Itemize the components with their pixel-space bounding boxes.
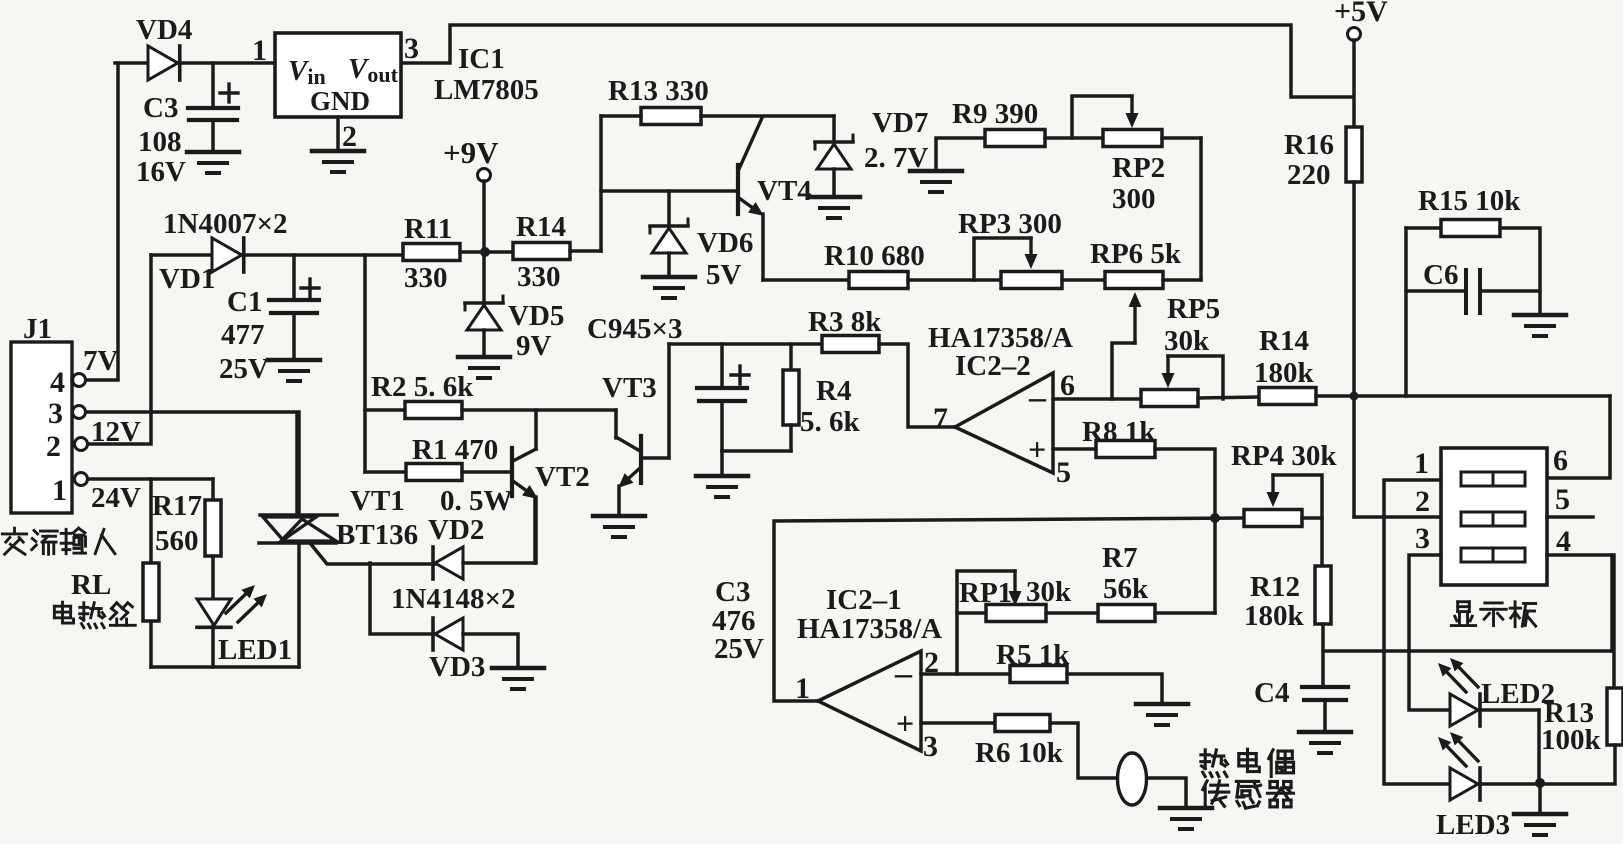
svg-text:477: 477: [221, 319, 265, 351]
svg-text:12V: 12V: [91, 416, 141, 448]
svg-text:30k: 30k: [1164, 325, 1210, 357]
svg-text:5. 6k: 5. 6k: [800, 406, 861, 438]
svg-text:–: –: [894, 655, 913, 692]
svg-text:IC2–2: IC2–2: [955, 350, 1031, 382]
svg-text:RP2: RP2: [1112, 152, 1165, 184]
svg-text:16V: 16V: [136, 156, 186, 188]
svg-text:R14: R14: [516, 211, 566, 243]
svg-text:R5 1k: R5 1k: [996, 639, 1070, 671]
svg-text:R9 390: R9 390: [952, 98, 1038, 130]
svg-text:LM7805: LM7805: [434, 74, 539, 106]
svg-text:1: 1: [795, 672, 810, 705]
svg-text:RL: RL: [71, 569, 111, 601]
svg-text:180k: 180k: [1254, 357, 1315, 389]
svg-text:R15 10k: R15 10k: [1418, 185, 1521, 217]
svg-text:3: 3: [923, 730, 938, 763]
svg-text:+: +: [1028, 431, 1046, 467]
svg-text:VD2: VD2: [428, 514, 484, 546]
svg-text:1: 1: [252, 34, 267, 67]
svg-text:560: 560: [155, 525, 199, 557]
svg-text:RP6 5k: RP6 5k: [1090, 238, 1182, 270]
svg-text:7V: 7V: [83, 345, 119, 377]
svg-text:24V: 24V: [91, 482, 141, 514]
svg-text:1N4007×2: 1N4007×2: [163, 208, 287, 240]
svg-text:LED1: LED1: [218, 634, 292, 666]
svg-text:–: –: [1028, 379, 1047, 416]
svg-text:C4: C4: [1254, 677, 1289, 709]
svg-text:2. 7V: 2. 7V: [864, 142, 929, 174]
svg-text:VT4: VT4: [757, 175, 812, 207]
svg-text:C3: C3: [143, 92, 178, 124]
svg-text:25V: 25V: [219, 353, 269, 385]
svg-text:R11: R11: [404, 213, 452, 245]
svg-text:RP3 300: RP3 300: [958, 208, 1062, 240]
svg-text:R7: R7: [1102, 542, 1137, 574]
svg-text:VT1: VT1: [350, 485, 405, 517]
svg-text:VD5: VD5: [508, 300, 564, 332]
svg-text:5: 5: [1056, 456, 1071, 489]
svg-text:108: 108: [138, 126, 182, 158]
svg-text:GND: GND: [310, 86, 370, 116]
svg-text:R1 470: R1 470: [412, 434, 498, 466]
svg-text:1N4148×2: 1N4148×2: [391, 583, 515, 615]
svg-text:R12: R12: [1250, 571, 1300, 603]
svg-text:56k: 56k: [1103, 573, 1149, 605]
svg-text:HA17358/A: HA17358/A: [797, 613, 942, 645]
svg-text:R13 330: R13 330: [608, 75, 709, 107]
svg-text:C3: C3: [715, 576, 750, 608]
svg-text:25V: 25V: [714, 633, 764, 665]
svg-text:VD6: VD6: [697, 227, 753, 259]
svg-text:1: 1: [1414, 447, 1429, 480]
svg-text:4: 4: [1556, 525, 1571, 558]
svg-text:IC1: IC1: [458, 43, 505, 75]
svg-text:300: 300: [1112, 183, 1156, 215]
svg-text:C1: C1: [227, 286, 262, 318]
svg-text:R3 8k: R3 8k: [808, 306, 882, 338]
svg-text:0. 5W: 0. 5W: [440, 485, 513, 517]
svg-text:+5V: +5V: [1334, 0, 1388, 28]
svg-text:C945×3: C945×3: [587, 313, 682, 345]
svg-text:RP4 30k: RP4 30k: [1231, 440, 1337, 472]
svg-text:2: 2: [1415, 485, 1430, 518]
svg-text:R4: R4: [816, 375, 851, 407]
svg-text:3: 3: [404, 32, 419, 65]
svg-text:6: 6: [1060, 369, 1075, 402]
svg-text:VT2: VT2: [535, 461, 590, 493]
svg-text:2: 2: [342, 120, 357, 153]
svg-text:9V: 9V: [516, 330, 552, 362]
svg-text:330: 330: [404, 262, 448, 294]
svg-text:3: 3: [48, 397, 63, 430]
svg-text:LED3: LED3: [1436, 809, 1510, 841]
svg-text:RP5: RP5: [1167, 293, 1220, 325]
svg-text:C6: C6: [1423, 259, 1458, 291]
svg-text:+: +: [896, 705, 914, 741]
svg-text:R14: R14: [1259, 325, 1309, 357]
svg-text:R17: R17: [152, 490, 202, 522]
svg-text:RP1: RP1: [959, 577, 1012, 609]
svg-text:7: 7: [933, 402, 948, 435]
svg-text:2: 2: [46, 430, 61, 463]
svg-text:R8 1k: R8 1k: [1082, 416, 1156, 448]
svg-text:220: 220: [1287, 159, 1331, 191]
svg-text:5V: 5V: [706, 259, 742, 291]
svg-text:30k: 30k: [1026, 576, 1072, 608]
svg-text:R10 680: R10 680: [824, 240, 925, 272]
svg-text:VT3: VT3: [602, 372, 657, 404]
svg-text:IC2–1: IC2–1: [826, 584, 902, 616]
svg-text:VD4: VD4: [136, 14, 192, 46]
svg-text:VD1: VD1: [159, 263, 215, 295]
svg-text:+9V: +9V: [443, 135, 499, 170]
svg-text:1: 1: [52, 474, 67, 507]
svg-text:180k: 180k: [1244, 600, 1305, 632]
svg-text:5: 5: [1555, 483, 1570, 516]
svg-text:VD3: VD3: [429, 651, 485, 683]
svg-text:J1: J1: [23, 313, 52, 345]
svg-text:BT136: BT136: [336, 519, 418, 551]
svg-text:R2 5. 6k: R2 5. 6k: [371, 371, 474, 403]
svg-text:3: 3: [1415, 522, 1430, 555]
svg-text:R6 10k: R6 10k: [975, 737, 1064, 769]
svg-text:2: 2: [924, 646, 939, 679]
svg-text:330: 330: [517, 261, 561, 293]
svg-text:4: 4: [50, 366, 65, 399]
svg-text:100k: 100k: [1541, 724, 1602, 756]
svg-text:R16: R16: [1284, 129, 1334, 161]
svg-text:6: 6: [1553, 444, 1568, 477]
svg-text:VD7: VD7: [872, 107, 928, 139]
